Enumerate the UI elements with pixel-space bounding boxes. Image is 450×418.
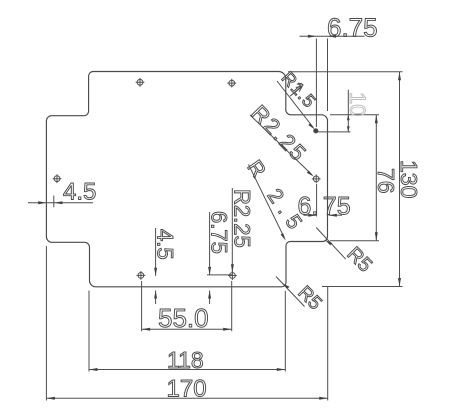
dimension 4.5 left — [28, 179, 96, 208]
svg-text:10: 10 — [345, 92, 370, 116]
dimension 130 right — [288, 72, 422, 287]
svg-text:6.75: 6.75 — [327, 12, 378, 42]
svg-text:55.0: 55.0 — [158, 303, 209, 333]
dimension 4.5 bottom (vertical small) — [153, 228, 178, 304]
dimension 6.75 top — [300, 12, 378, 127]
dimension 170 — [46, 246, 327, 403]
hole H4 bottom-left — [137, 271, 146, 280]
hole H5 bottom-middle — [228, 271, 237, 280]
svg-text:R2.25: R2.25 — [230, 189, 255, 248]
svg-text:4.5: 4.5 — [153, 229, 178, 260]
hole H2 top-middle — [227, 79, 236, 88]
leader R5 lower — [276, 277, 325, 315]
svg-text:6.: 6. — [298, 192, 319, 220]
leader R5 upper — [316, 228, 376, 277]
dimension 6.75 bottom (vertical small) — [207, 211, 233, 304]
dimension 76 right — [330, 115, 399, 241]
hole H6 right (R2.25) — [312, 175, 321, 184]
svg-text:170: 170 — [167, 376, 207, 403]
svg-text:76: 76 — [373, 168, 399, 194]
hole H1 top-left — [136, 78, 145, 87]
svg-text:6.75: 6.75 — [207, 211, 232, 254]
dimension 10 (light) — [317, 90, 370, 133]
leader R2.25 upper — [246, 100, 313, 176]
leader R1.5 — [277, 68, 320, 130]
dimension 55.0 — [142, 281, 232, 333]
svg-text:4.5: 4.5 — [63, 179, 96, 206]
plate outline — [46, 72, 327, 287]
hole H3 left — [53, 174, 62, 183]
hole H7 small (R1.5) — [314, 128, 319, 133]
dimension 118 — [89, 291, 285, 374]
leader R 2.5 — [242, 156, 310, 240]
leader R2.25 lower (vertical) — [230, 188, 255, 272]
dimension 6.75 right (hole to edge) — [298, 184, 351, 220]
svg-text:75: 75 — [323, 192, 351, 220]
svg-text:118: 118 — [167, 347, 204, 373]
